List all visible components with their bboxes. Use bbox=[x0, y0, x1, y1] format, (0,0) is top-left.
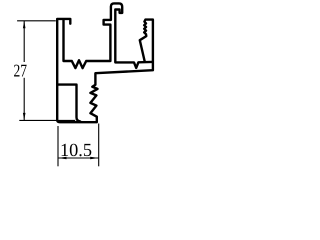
dimension 27: bottom arrowhead bbox=[23, 113, 26, 121]
dimension 10.5: left extension line bbox=[57, 126, 59, 166]
inner leg step: horizontal web and inner vertical with fillet into foot bottom bbox=[57, 85, 80, 122]
dimension 10.5: horizontal dimension line bbox=[58, 157, 99, 159]
dimension 27: bottom extension line bbox=[19, 119, 75, 121]
dimension 27: top extension line bbox=[17, 20, 56, 22]
svg-text:10.5: 10.5 bbox=[60, 141, 92, 161]
dimension 10.5: left arrowhead bbox=[58, 157, 67, 160]
dimension 27: top arrowhead bbox=[23, 21, 26, 29]
dimension 27: vertical dimension line lower segment bbox=[23, 78, 25, 121]
dimension 10.5: right arrowhead bbox=[90, 157, 99, 160]
dimension 27: vertical dimension line upper segment bbox=[23, 21, 25, 62]
svg-text:27: 27 bbox=[13, 60, 27, 80]
profile inner outline: inner wall, shelf with W spring, pole with top hook cap and arm top line with tooth bbox=[64, 3, 153, 68]
profile outer outline: left wall, foot, serrated leg edge, arm bottom, wedge right face, wedge serrated left edge bbox=[57, 19, 153, 122]
dimension 10.5: right extension line bbox=[98, 124, 100, 167]
